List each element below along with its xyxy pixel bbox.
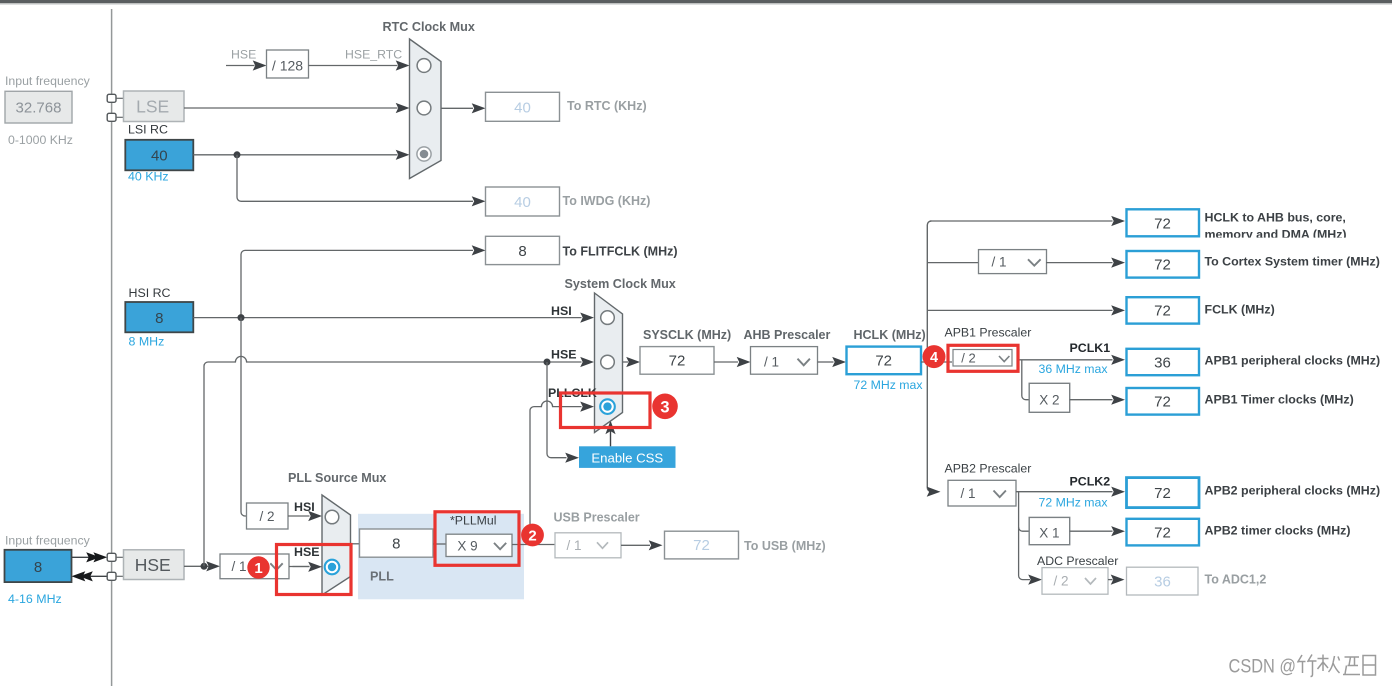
multiplier X1 box xyxy=(1029,517,1070,544)
divider /2 box xyxy=(247,503,289,529)
node HSE junction xyxy=(201,563,208,570)
wire APB2 branch vertical xyxy=(1019,492,1042,585)
svg-text:X 2: X 2 xyxy=(1039,393,1059,408)
wire LSE to RTC mux xyxy=(184,103,410,113)
svg-text:To IWDG (KHz): To IWDG (KHz) xyxy=(563,194,651,208)
svg-text:8: 8 xyxy=(34,559,42,576)
LSE pin square bottom xyxy=(107,113,116,121)
output box FCLK 72 xyxy=(1127,297,1200,323)
svg-text:HSE: HSE xyxy=(231,47,256,61)
wire APB1 branch to X2 xyxy=(1022,360,1029,400)
svg-text:Input frequency: Input frequency xyxy=(5,534,91,548)
label 36 MHz max xyxy=(1039,362,1109,376)
svg-text:RTC Clock Mux: RTC Clock Mux xyxy=(383,20,475,34)
PLL input box 8 xyxy=(360,529,434,557)
wire bus into APB2 xyxy=(927,487,941,497)
annotation red circle 1 xyxy=(247,556,269,578)
annotation red rect 2 PLLMul xyxy=(435,512,519,566)
annotation red rect 3 PLLCLK select xyxy=(561,393,651,428)
radio sys PLLCLK selected blue xyxy=(600,399,615,414)
wire CSS branch down xyxy=(547,362,579,463)
divider APB2 /1 dropdown xyxy=(948,480,1016,506)
title System Clock Mux xyxy=(565,277,676,291)
wire HSI to system mux xyxy=(193,313,594,323)
label LSI RC xyxy=(128,123,168,137)
svg-text:To FLITFCLK (MHz): To FLITFCLK (MHz) xyxy=(563,244,678,258)
svg-text:/ 2: / 2 xyxy=(961,351,975,366)
label HCLK to AHB bus core xyxy=(1205,211,1347,242)
title PLL Source Mux xyxy=(288,471,386,485)
mux PLL Source Mux body xyxy=(322,495,351,595)
wire 8 to PLLMul xyxy=(433,543,446,545)
svg-text:APB1 peripheral clocks (MHz): APB1 peripheral clocks (MHz) xyxy=(1205,353,1381,367)
svg-text:72 MHz max: 72 MHz max xyxy=(1039,495,1109,509)
oscillator LSE box xyxy=(124,91,185,122)
svg-text:72: 72 xyxy=(875,353,892,370)
svg-text:72: 72 xyxy=(693,537,710,554)
label HSI pll mux xyxy=(294,500,315,514)
svg-text:HSE: HSE xyxy=(135,555,171,575)
output box To USB xyxy=(665,531,826,559)
svg-text:To ADC1,2: To ADC1,2 xyxy=(1205,573,1267,587)
output box HCLK to AHB 72 xyxy=(1127,209,1200,236)
output box To RTC xyxy=(486,92,647,121)
wire APB1 to box xyxy=(1018,355,1125,365)
watermark glyph qiu xyxy=(1318,655,1340,674)
divider USB /1 dropdown greyed xyxy=(555,533,621,558)
annotation red circle 4 xyxy=(923,345,946,368)
svg-text:Enable CSS: Enable CSS xyxy=(591,450,663,465)
svg-text:LSE: LSE xyxy=(136,96,169,116)
svg-text:AHB Prescaler: AHB Prescaler xyxy=(744,328,831,342)
wire bus to HCLK AHB output xyxy=(930,216,1125,226)
svg-text:4: 4 xyxy=(930,350,938,366)
divider AHB /1 dropdown xyxy=(751,347,818,375)
wire pll mux to pll input xyxy=(351,543,360,545)
title RTC Clock Mux xyxy=(383,20,475,34)
divider ADC /2 dropdown greyed xyxy=(1042,568,1108,595)
output box To IWDG xyxy=(486,187,651,216)
svg-text:72 MHz max: 72 MHz max xyxy=(854,378,924,392)
svg-text:CSDN @: CSDN @ xyxy=(1229,656,1297,678)
svg-text:36: 36 xyxy=(1154,354,1171,371)
svg-text:/ 1: / 1 xyxy=(991,254,1006,269)
left boundary vertical line xyxy=(111,9,113,686)
svg-text:72: 72 xyxy=(1154,257,1171,274)
svg-text:/ 1: / 1 xyxy=(764,355,779,370)
svg-text:HSI: HSI xyxy=(551,304,572,318)
svg-text:8: 8 xyxy=(155,310,163,327)
output box To FLITFCLK xyxy=(486,236,678,264)
radio sys HSI unselected xyxy=(601,311,615,325)
label 4-16 MHz xyxy=(8,592,62,606)
output box APB2 peripheral 72 xyxy=(1127,478,1200,508)
node LSI junction xyxy=(234,151,241,158)
label SYSCLK (MHz) xyxy=(643,328,731,342)
wire USB /1 to box xyxy=(621,540,663,550)
wire HCLK to bus xyxy=(921,361,952,363)
wire Enable CSS up arrow to mux xyxy=(605,421,615,447)
svg-text:72: 72 xyxy=(1154,524,1171,541)
label PLLCLK system mux xyxy=(548,386,597,400)
wire PLLMul output to USB xyxy=(512,544,555,546)
svg-text:APB1 Prescaler: APB1 Prescaler xyxy=(945,325,1032,339)
wire X2 to box xyxy=(1070,395,1125,405)
svg-text:memory and DMA (MHz): memory and DMA (MHz) xyxy=(1205,228,1347,242)
wire bus to cortex divider xyxy=(927,262,978,264)
svg-text:40 KHz: 40 KHz xyxy=(128,170,169,184)
box SYSCLK 72 xyxy=(640,347,714,375)
top dark bar xyxy=(0,0,1392,5)
wire mux to SYSCLK box xyxy=(623,357,641,367)
svg-text:36: 36 xyxy=(1154,573,1171,590)
wire APB2 to box xyxy=(1016,487,1125,497)
wire RTC mux output xyxy=(441,103,486,113)
LSE input frequency box 32.768 xyxy=(5,91,72,123)
divider APB1 /2 dropdown xyxy=(953,350,1012,367)
divider Cortex /1 dropdown xyxy=(979,250,1047,274)
label APB2 peripheral clocks xyxy=(1205,483,1381,497)
wire HSE stub to /128 xyxy=(226,60,267,70)
wire AHB to HCLK xyxy=(818,357,847,367)
wire HSE pin return double arrow left xyxy=(72,571,108,581)
label 8 MHz xyxy=(129,334,165,348)
wire PLLCLK feedback up with hop xyxy=(530,401,594,544)
svg-text:PLL: PLL xyxy=(370,569,394,583)
svg-text:8: 8 xyxy=(518,243,526,260)
svg-text:ADC Prescaler: ADC Prescaler xyxy=(1037,554,1118,568)
divider HSE /1 dropdown xyxy=(220,554,289,579)
wire /2 to pll mux xyxy=(288,511,322,521)
wire HSI to FLITFCLK xyxy=(241,245,486,317)
HSE pin square bottom xyxy=(107,572,116,580)
annotation red circle 2 xyxy=(521,524,544,547)
label APB1 peripheral clocks xyxy=(1205,353,1381,367)
svg-text:3: 3 xyxy=(660,398,669,416)
svg-text:0-1000 KHz: 0-1000 KHz xyxy=(8,133,73,147)
label PCLK2 xyxy=(1070,474,1111,488)
svg-text:/ 2: / 2 xyxy=(1053,573,1068,588)
svg-text:HSI: HSI xyxy=(294,500,315,514)
svg-text:4-16 MHz: 4-16 MHz xyxy=(8,592,62,606)
HSE pin square top xyxy=(107,553,116,561)
svg-text:PCLK2: PCLK2 xyxy=(1070,474,1111,488)
annotation red rect 1 HSE mux select xyxy=(277,545,352,595)
wire HSI down to /2 xyxy=(241,318,247,516)
wire HSE up to system mux with hop xyxy=(204,356,594,566)
radio LSI selected grey xyxy=(417,147,431,161)
wire bus to FCLK xyxy=(927,305,1125,315)
svg-text:APB2 timer clocks (MHz): APB2 timer clocks (MHz) xyxy=(1205,523,1351,537)
svg-text:HSE: HSE xyxy=(551,347,576,361)
wire X1 to box xyxy=(1070,526,1125,536)
label HSE stub xyxy=(231,47,256,61)
svg-text:LSI RC: LSI RC xyxy=(128,123,168,137)
svg-text:APB2 Prescaler: APB2 Prescaler xyxy=(945,461,1032,475)
multiplier X2 box xyxy=(1029,383,1070,412)
svg-text:8: 8 xyxy=(392,536,400,553)
divider /128 box xyxy=(267,50,309,78)
label PLL xyxy=(370,569,394,583)
label HSE pll mux xyxy=(294,545,319,559)
svg-text:72: 72 xyxy=(1154,394,1171,411)
wire LSI to RTC mux xyxy=(193,150,409,160)
svg-text:X 9: X 9 xyxy=(457,538,477,553)
HSE input frequency box 8 xyxy=(5,550,72,582)
radio pll HSE selected blue xyxy=(325,560,340,575)
wire LSI to IWDG xyxy=(237,155,486,207)
label AHB Prescaler xyxy=(744,328,831,342)
label 72 MHz max HCLK xyxy=(854,378,924,392)
wire branch to X1 xyxy=(1019,527,1030,531)
wire /128 to RTC mux xyxy=(309,60,410,70)
radio LSE unselected xyxy=(417,101,431,115)
svg-text:72: 72 xyxy=(1154,303,1171,320)
watermark glyph wu xyxy=(1343,657,1360,675)
label HSI system mux xyxy=(551,304,572,318)
svg-text:HSE: HSE xyxy=(294,545,319,559)
label *PLLMul xyxy=(450,513,496,527)
svg-text:SYSCLK (MHz): SYSCLK (MHz) xyxy=(643,328,731,342)
oscillator HSE box xyxy=(124,550,185,580)
svg-text:72: 72 xyxy=(1154,485,1171,502)
svg-text:/ 128: / 128 xyxy=(272,57,303,73)
LSE pin square top xyxy=(107,94,116,102)
HSE input frequency label xyxy=(5,534,91,548)
svg-text:72: 72 xyxy=(669,353,686,370)
output box APB1 peripheral 36 xyxy=(1127,349,1200,375)
label 72 MHz max APB2 xyxy=(1039,495,1109,509)
oscillator HSI RC box 8 xyxy=(125,302,193,332)
svg-text:HCLK to AHB bus, core,: HCLK to AHB bus, core, xyxy=(1205,211,1346,225)
label To Cortex System timer xyxy=(1205,254,1380,268)
svg-text:72: 72 xyxy=(1154,215,1171,232)
wire SYSCLK to AHB xyxy=(714,357,751,367)
annotation red circle 3 xyxy=(652,394,678,420)
wire cortex divider to box xyxy=(1046,258,1125,268)
svg-text:X 1: X 1 xyxy=(1039,526,1059,541)
svg-text:System Clock Mux: System Clock Mux xyxy=(565,277,676,291)
svg-text:40: 40 xyxy=(514,194,531,211)
svg-text:To RTC (KHz): To RTC (KHz) xyxy=(567,99,647,113)
svg-text:/ 1: / 1 xyxy=(566,538,581,553)
label HSE system mux xyxy=(551,347,576,361)
radio sys HSE unselected xyxy=(601,355,615,369)
svg-text:1: 1 xyxy=(254,560,262,577)
svg-text:HSI RC: HSI RC xyxy=(129,286,171,300)
node CSS junction xyxy=(544,359,551,366)
box HCLK 72 blue xyxy=(847,347,922,375)
watermark glyph ri xyxy=(1363,656,1376,676)
svg-text:APB1 Timer clocks (MHz): APB1 Timer clocks (MHz) xyxy=(1205,392,1354,406)
svg-text:/ 1: / 1 xyxy=(960,486,975,501)
svg-text:HCLK (MHz): HCLK (MHz) xyxy=(854,328,926,342)
svg-text:36 MHz max: 36 MHz max xyxy=(1039,362,1109,376)
output box Cortex 72 xyxy=(1127,251,1200,278)
svg-text:40: 40 xyxy=(151,148,168,165)
svg-text:FCLK (MHz): FCLK (MHz) xyxy=(1205,302,1275,316)
LSE range label xyxy=(8,133,73,147)
svg-text:*PLLMul: *PLLMul xyxy=(450,513,496,527)
label APB2 timer clocks xyxy=(1205,523,1351,537)
label APB1 Prescaler xyxy=(945,325,1032,339)
node HSI junction xyxy=(238,314,245,321)
svg-text:40: 40 xyxy=(514,99,531,116)
label 40 KHz xyxy=(128,170,169,184)
label PCLK1 xyxy=(1070,341,1111,355)
label APB2 Prescaler xyxy=(945,461,1032,475)
output box APB2 timer 72 xyxy=(1127,519,1200,546)
mux System Clock Mux body xyxy=(595,293,623,433)
svg-text:APB2 peripheral clocks (MHz): APB2 peripheral clocks (MHz) xyxy=(1205,483,1381,497)
oscillator LSI RC box 40 xyxy=(125,140,193,171)
wire pin to LSE box xyxy=(116,98,124,117)
radio pll HSI unselected xyxy=(325,510,339,524)
watermark CSDN xyxy=(1229,656,1297,678)
svg-text:/ 2: / 2 xyxy=(259,509,274,524)
svg-text:8 MHz: 8 MHz xyxy=(129,334,165,348)
wire input to HSE pin double arrow right xyxy=(72,552,108,562)
LSE input frequency label xyxy=(5,74,91,88)
label FCLK (MHz) xyxy=(1205,302,1275,316)
svg-text:PCLK1: PCLK1 xyxy=(1070,341,1111,355)
svg-text:HSE_RTC: HSE_RTC xyxy=(345,47,402,61)
label HCLK (MHz) xyxy=(854,328,926,342)
label USB Prescaler xyxy=(554,511,640,525)
PLL block background xyxy=(358,514,524,600)
svg-text:/ 1: / 1 xyxy=(231,559,246,574)
label ADC Prescaler xyxy=(1037,554,1118,568)
wire pins to HSE box xyxy=(116,557,124,576)
svg-text:To USB (MHz): To USB (MHz) xyxy=(744,539,826,553)
radio HSE_RTC unselected xyxy=(417,59,431,73)
multiplier PLLMul X9 dropdown xyxy=(446,534,512,556)
label HSI RC xyxy=(129,286,171,300)
bus vertical line xyxy=(927,221,931,492)
annotation red rect 4 APB1 prescaler xyxy=(948,345,1018,371)
button Enable CSS xyxy=(579,446,676,468)
svg-text:To Cortex System timer (MHz): To Cortex System timer (MHz) xyxy=(1205,254,1380,268)
watermark glyph zhu xyxy=(1298,655,1317,677)
label APB1 Timer clocks xyxy=(1205,392,1354,406)
label HSE_RTC xyxy=(345,47,402,61)
wire /1 to pll mux HSE xyxy=(289,566,310,568)
label To ADC1,2 xyxy=(1205,573,1267,587)
output box To ADC 36 greyed xyxy=(1127,567,1199,595)
wire ADC divider to box xyxy=(1108,575,1125,585)
svg-text:2: 2 xyxy=(528,528,536,545)
mux RTC Clock Mux body xyxy=(410,39,442,179)
wire HSE to /1 divider xyxy=(184,561,220,571)
svg-text:Input frequency: Input frequency xyxy=(5,74,91,88)
svg-text:32.768: 32.768 xyxy=(16,100,62,117)
wire /1 to pll mux xyxy=(293,562,323,572)
svg-text:PLL Source Mux: PLL Source Mux xyxy=(288,471,386,485)
output box APB1 timer 72 xyxy=(1127,388,1200,415)
svg-text:USB Prescaler: USB Prescaler xyxy=(554,511,640,525)
